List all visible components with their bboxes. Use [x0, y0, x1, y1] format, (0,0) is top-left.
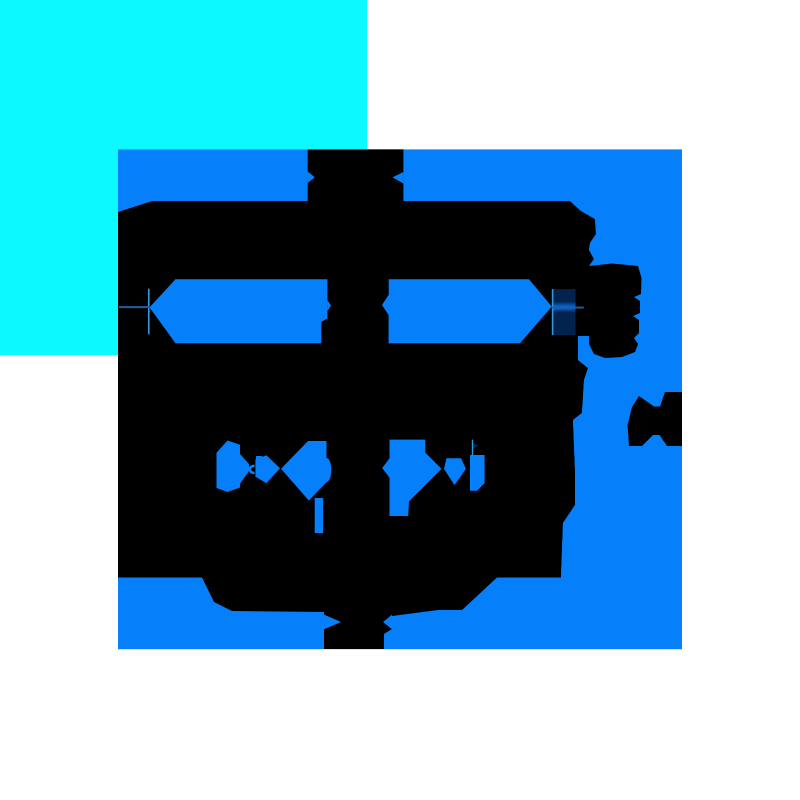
left impeller blade triangle [281, 441, 327, 501]
right impeller left wedge [382, 455, 392, 481]
mass-to-blob black patch [577, 264, 590, 336]
mid band small left-pointing notch [382, 292, 391, 318]
left impeller small diamond [255, 455, 280, 483]
pedestal left arrow notch [324, 615, 341, 630]
bottom band left [118, 578, 324, 650]
right blue region [561, 201, 682, 577]
left extension line lower [148, 289, 150, 335]
right impeller flag [474, 443, 479, 449]
left impeller blade bump [322, 458, 332, 482]
vessel top flange band [118, 201, 596, 281]
mid dimension band right segment with arrowhead [389, 279, 552, 343]
right impeller top block [390, 440, 426, 455]
navy box glow line [553, 302, 576, 313]
left impeller hub hexagon [217, 441, 250, 493]
top band right arrow notch [393, 172, 404, 184]
pedestal right arrow notch [383, 615, 392, 630]
right leader line [552, 307, 584, 309]
right bowtie glyph [628, 392, 683, 446]
right impeller body [390, 453, 442, 516]
bottom band right [384, 578, 682, 650]
right impeller flag line [472, 440, 473, 456]
right impeller bar [470, 455, 485, 491]
right extension line [552, 289, 554, 335]
left impeller tail [315, 498, 323, 533]
mid band left segment arrow bump [327, 300, 331, 311]
mid dimension left arrowhead [150, 279, 176, 343]
blue panel base [118, 149, 682, 649]
left leader line [119, 306, 150, 308]
top band left arrow notch [308, 172, 315, 184]
cyan square [0, 0, 367, 355]
right glyph blob [589, 264, 642, 359]
top dimension blob (text 25) [308, 149, 404, 201]
right impeller pentagon [444, 458, 466, 485]
navy measurement box [553, 289, 576, 335]
left impeller C-ring [250, 466, 255, 473]
mid dimension band left segment [175, 279, 327, 343]
left impeller diamond bump [256, 456, 262, 462]
vessel body mass [118, 279, 588, 649]
mid band right segment lower step [389, 315, 391, 343]
